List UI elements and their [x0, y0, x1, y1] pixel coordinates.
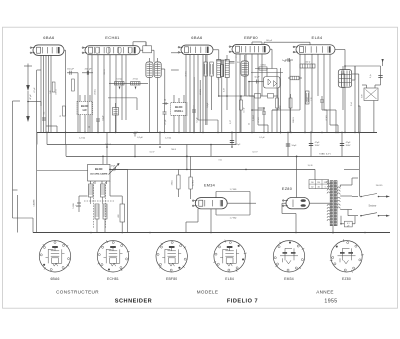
capacitor C bus — [134, 132, 136, 137]
svg-text:EZ80: EZ80 — [282, 187, 292, 191]
tube V5 pin wires — [299, 54, 301, 110]
wire v x78 — [77, 102, 79, 133]
resistor R3 — [72, 79, 75, 91]
svg-text:110: 110 — [311, 182, 314, 184]
svg-text:Secteur: Secteur — [369, 205, 377, 208]
bus junction dots — [46, 132, 48, 134]
antenna input terminal — [24, 65, 32, 67]
svg-text:0,1μF: 0,1μF — [103, 115, 105, 121]
wire jog6 — [258, 124, 268, 126]
wire jog t1b — [46, 125, 57, 127]
wire v x195 — [193, 77, 195, 132]
bus tick x65 — [65, 132, 67, 144]
resistor R agc1 — [115, 82, 125, 85]
tube V2 top wire — [132, 42, 134, 46]
svg-text:6BA6: 6BA6 — [50, 277, 59, 281]
svg-text:2n: 2n — [282, 60, 284, 62]
svg-text:1 MΩ: 1 MΩ — [260, 65, 266, 67]
svg-text:47 kΩ: 47 kΩ — [258, 117, 260, 123]
svg-text:0,27: 0,27 — [230, 120, 232, 124]
tuning coil L4 — [103, 204, 107, 219]
svg-text:FIDELIO 7: FIDELIO 7 — [227, 298, 258, 304]
bus ground y232.5 — [33, 232, 390, 234]
svg-text:25: 25 — [249, 123, 251, 125]
resistor R1 vertical — [52, 82, 55, 92]
coupling coil ECH81 — [143, 46, 152, 53]
svg-text:1,7 MΩ: 1,7 MΩ — [230, 218, 237, 220]
svg-text:1 k: 1 k — [339, 81, 341, 84]
svg-text:BLOC: BLOC — [81, 104, 88, 108]
svg-text:764 Ω: 764 Ω — [171, 149, 177, 151]
dots ebf — [240, 95, 242, 97]
svg-text:1,2 kΩ: 1,2 kΩ — [105, 144, 112, 146]
svg-text:ANNEE: ANNEE — [316, 290, 334, 295]
EM34 pin wires — [210, 209, 212, 233]
svg-text:STAB. 6,3 V: STAB. 6,3 V — [319, 153, 331, 156]
power transformer primary winding — [327, 183, 330, 185]
socket view EL84 — [214, 241, 245, 272]
svg-text:6BA6: 6BA6 — [43, 35, 55, 40]
svg-text:0,1μF: 0,1μF — [207, 102, 209, 108]
tube V3 6BA6 envelope — [181, 45, 213, 55]
socket view 6BA6 — [39, 241, 70, 272]
wire v x146 — [145, 42, 147, 46]
resistor R el84 grid — [290, 76, 299, 80]
svg-text:1 MΩ: 1 MΩ — [280, 105, 282, 110]
capacitor 150pF top — [67, 72, 78, 74]
capacitor C47uF-1 — [310, 132, 312, 156]
svg-text:350V: 350V — [346, 145, 351, 147]
svg-text:1,2 kΩ: 1,2 kΩ — [79, 138, 86, 140]
svg-text:1,2 kΩ: 1,2 kΩ — [165, 138, 172, 140]
svg-text:47 kΩ: 47 kΩ — [133, 78, 139, 80]
resistor R em1 — [177, 175, 180, 189]
wire osc jog — [108, 97, 137, 99]
resistor R ebf1 — [240, 100, 243, 110]
svg-text:ECH81: ECH81 — [105, 35, 120, 40]
tube V4 top wire — [251, 42, 253, 45]
resistor R t3a — [204, 62, 208, 76]
IF transformer T2 can B — [225, 60, 229, 78]
bloc HF wires — [79, 95, 81, 102]
capacitor C ebf — [262, 111, 266, 113]
svg-text:245: 245 — [324, 182, 327, 184]
svg-text:0,1μF: 0,1μF — [197, 117, 199, 123]
voltage table — [309, 180, 329, 189]
bus tick x107 — [106, 132, 108, 144]
tube V5 EL84 envelope — [296, 45, 335, 55]
wire jog3 — [272, 109, 300, 111]
IF transformer T2 core — [221, 60, 223, 77]
capacitor 0.1uF mains — [344, 221, 352, 227]
terminal antenna ext — [382, 59, 384, 66]
AGC line — [109, 82, 148, 84]
wire v x254 — [253, 96, 255, 132]
IF transformer T1 can A — [146, 62, 153, 77]
wire x33 bottom — [32, 218, 34, 233]
resistor R cadre — [120, 204, 125, 222]
bus tick x338 — [337, 132, 339, 134]
mains switch upper — [352, 196, 358, 198]
svg-text:H.F: H.F — [83, 108, 88, 112]
svg-text:100 pF: 100 pF — [266, 40, 273, 42]
IF transformer T1 can B — [154, 62, 161, 77]
bus tick x232 — [231, 132, 233, 134]
tube V2 internal grid boxes — [96, 47, 100, 53]
IF T1 wires — [148, 77, 150, 132]
capacitor C50uF b — [231, 132, 233, 147]
svg-text:EZ80: EZ80 — [342, 277, 351, 281]
svg-text:350V: 350V — [315, 145, 320, 147]
svg-text:0,1μ: 0,1μ — [370, 74, 372, 78]
wire v x327 — [326, 110, 328, 132]
ferrite core dashed — [93, 182, 95, 228]
wire jog1 — [245, 95, 247, 97]
capacitor C hp — [380, 70, 382, 85]
wire x12 down — [12, 190, 14, 218]
padder capacitor — [113, 108, 119, 116]
tube V2 ECH81 envelope — [85, 46, 140, 55]
wire jog4 — [324, 109, 336, 111]
socket view EBF80 — [156, 241, 187, 272]
svg-text:1 MΩ: 1 MΩ — [172, 180, 174, 185]
svg-text:100 Ω: 100 Ω — [305, 62, 311, 64]
svg-text:51 kΩ: 51 kΩ — [117, 78, 123, 80]
svg-text:5,6 kΩ: 5,6 kΩ — [307, 97, 309, 103]
svg-text:BLOC: BLOC — [175, 105, 182, 109]
svg-text:ACCORD-CADRE: ACCORD-CADRE — [90, 173, 108, 176]
svg-text:50μF: 50μF — [236, 144, 242, 146]
capacitor C ECH81 grid — [162, 103, 168, 105]
svg-text:6,3 V: 6,3 V — [150, 152, 155, 154]
svg-text:50 pF: 50 pF — [254, 77, 260, 79]
bloc oscill wires — [173, 95, 175, 103]
svg-text:EL84: EL84 — [225, 277, 234, 281]
svg-text:3,4 Ω: 3,4 Ω — [308, 165, 313, 167]
svg-text:250 pF: 250 pF — [85, 69, 92, 71]
wire jog t1 — [33, 101, 41, 103]
tube V3 left wire — [171, 69, 179, 71]
svg-text:CADRE: CADRE — [32, 199, 35, 207]
tube V6 EM34 envelope — [195, 198, 227, 209]
wire det — [221, 77, 223, 133]
svg-text:CONSTRUCTEUR: CONSTRUCTEUR — [56, 290, 99, 295]
IF transformer T3 can — [241, 61, 249, 76]
svg-text:EBF80: EBF80 — [244, 35, 258, 40]
bus B3 y156 — [66, 156, 359, 158]
HT rail right — [358, 132, 360, 196]
bus tick x280 — [280, 132, 282, 134]
wire left feeder — [36, 70, 38, 233]
resistor R agc2 — [131, 82, 141, 85]
tuning coil L3 — [95, 204, 99, 219]
svg-text:EBF80: EBF80 — [166, 277, 177, 281]
tube V3 pin wires — [185, 55, 187, 133]
bus B1 y132 — [37, 132, 377, 134]
capacitor C ech k — [96, 118, 100, 120]
wire jog2 — [219, 95, 227, 97]
resistor det1 — [220, 65, 223, 77]
svg-text:50: 50 — [89, 126, 91, 128]
resistor R2 vertical — [63, 106, 66, 116]
resistor R el84 cathode — [306, 91, 310, 104]
svg-text:47 pF: 47 pF — [165, 119, 167, 125]
IF T2 wires — [213, 49, 219, 51]
svg-text:6,3 V: 6,3 V — [252, 152, 258, 154]
IF T3 wires — [244, 55, 246, 61]
coil bottom wires — [96, 219, 98, 233]
output transformer T4 — [338, 70, 351, 88]
bus tick x37 — [36, 132, 38, 144]
mains switch lower — [348, 215, 358, 217]
bus B4 y169 — [110, 169, 315, 171]
wire v x200 — [199, 80, 201, 132]
tube V4 EBF80 envelope — [232, 44, 270, 54]
svg-text:47μF: 47μF — [346, 142, 352, 144]
resistor R el84 screen — [300, 64, 315, 68]
wire v x355 — [354, 66, 356, 132]
svg-text:0: 0 — [325, 187, 326, 189]
wire v x360 — [359, 106, 361, 132]
svg-text:OSCILL: OSCILL — [174, 110, 183, 113]
wire cadre lower — [17, 195, 19, 233]
ground bus dots — [90, 232, 92, 234]
capacitor C el — [320, 99, 324, 101]
svg-text:EM34: EM34 — [204, 184, 215, 188]
svg-text:5 kΩ: 5 kΩ — [351, 101, 353, 106]
wire jog7 — [330, 124, 338, 126]
IF transformer T2 can A — [217, 60, 221, 78]
bus tick x186 — [186, 145, 188, 170]
capacitor 47pF accord — [112, 168, 118, 170]
HT wire right — [351, 178, 353, 185]
resistor R right — [341, 74, 345, 88]
capacitor cadre — [78, 198, 80, 212]
capacitor C osc — [163, 111, 167, 113]
svg-text:1,7 MΩ: 1,7 MΩ — [230, 189, 237, 191]
bloc oscillateur box — [171, 103, 187, 116]
tube V7 EZ80 envelope — [286, 198, 309, 209]
wire v x186.9 — [186, 169, 188, 171]
wire jog8 — [252, 109, 264, 111]
svg-text:MODELE: MODELE — [197, 290, 219, 295]
power transformer core — [330, 181, 333, 226]
svg-text:0,1: 0,1 — [44, 112, 46, 115]
socket view EZ80 — [331, 241, 362, 272]
svg-text:3 Ω: 3 Ω — [218, 160, 222, 162]
bus tick x211 — [210, 145, 212, 157]
wire pot down — [272, 109, 278, 111]
antenna coil L1 — [90, 181, 92, 184]
svg-text:ECH81: ECH81 — [107, 277, 119, 281]
svg-text:300 Ω: 300 Ω — [104, 69, 106, 75]
tube V5 top wire — [264, 41, 310, 43]
EZ80 wires — [296, 169, 298, 197]
power transformer secondary winding — [337, 187, 340, 189]
resistor R ebf2 — [276, 98, 279, 108]
svg-text:BLOC: BLOC — [95, 167, 103, 171]
resistor R t3b — [210, 62, 214, 76]
dots accord — [106, 144, 108, 146]
svg-text:5 000: 5 000 — [73, 203, 75, 209]
resistor R em2 — [189, 177, 192, 189]
capacitor C t1 g — [42, 117, 46, 119]
svg-text:300 Ω: 300 Ω — [293, 117, 295, 123]
tube V1 6BA6 envelope — [33, 45, 64, 56]
svg-text:SCHNEIDER: SCHNEIDER — [115, 298, 152, 304]
svg-text:12 kΩ: 12 kΩ — [193, 180, 195, 186]
tube V1 pin wires — [40, 56, 42, 133]
bloc accord top wires — [37, 170, 88, 172]
svg-text:47 pF: 47 pF — [34, 87, 36, 93]
detector block — [264, 77, 281, 89]
wire left edge bus — [12, 101, 14, 190]
svg-text:6BA6: 6BA6 — [191, 35, 203, 40]
svg-text:10 nF: 10 nF — [244, 107, 246, 113]
wire det y72 — [251, 72, 283, 74]
bus B2 y144 — [47, 144, 236, 146]
wire jog5 — [198, 119, 218, 121]
capacitor C50uF — [287, 132, 289, 156]
svg-text:46 kΩ: 46 kΩ — [186, 71, 188, 77]
bus tick x296 — [296, 156, 298, 169]
bus tick x160 — [159, 132, 161, 144]
wire x12 jog — [13, 189, 18, 191]
capacitor 50pF det2 — [249, 81, 264, 83]
wire v x290 — [289, 60, 291, 132]
socket view EM34 — [273, 241, 304, 272]
trimmer arrow — [109, 164, 119, 175]
wire accord-B4 — [110, 168, 112, 170]
loudspeaker HP — [364, 88, 378, 101]
svg-text:H.P.: H.P. — [362, 94, 364, 98]
wire v x374 — [373, 101, 375, 133]
power transformer bottom wire — [332, 226, 334, 233]
svg-text:0,1 μF: 0,1 μF — [259, 137, 265, 139]
output transformer wires — [335, 49, 345, 51]
antenna coil L2 — [101, 181, 103, 184]
capacitor C47uF-2 — [341, 132, 343, 156]
svg-text:47μF: 47μF — [315, 142, 321, 144]
svg-text:130: 130 — [317, 182, 320, 184]
bloc accord-cadre box — [88, 164, 110, 181]
grid cap C el84 — [285, 59, 293, 61]
svg-text:50μF: 50μF — [292, 145, 298, 147]
svg-text:0,1μF: 0,1μF — [137, 137, 143, 139]
capacitor 250pF top — [82, 72, 93, 74]
svg-text:20 kΩ: 20 kΩ — [95, 89, 97, 95]
bus tick x135b — [134, 145, 136, 157]
switch contacts det — [255, 94, 261, 99]
EM34 right bracket — [227, 202, 250, 204]
socket view ECH81 — [97, 241, 128, 272]
capacitor C t3 — [192, 109, 196, 111]
wire v x359 — [358, 74, 360, 132]
tube V2 pin wires — [91, 55, 93, 133]
bloc HF box — [77, 102, 93, 115]
svg-text:110-245: 110-245 — [376, 185, 383, 187]
svg-text:EM34: EM34 — [284, 277, 294, 281]
svg-text:180 Ω: 180 Ω — [56, 89, 58, 95]
wire v x280 — [280, 68, 282, 132]
resistor R el1 — [289, 98, 292, 108]
wire v x345b — [344, 66, 346, 70]
svg-text:150 pF: 150 pF — [67, 69, 74, 71]
svg-text:EL84: EL84 — [312, 35, 323, 40]
tube V4 pin wires — [235, 54, 237, 132]
svg-text:5: 5 — [235, 57, 236, 59]
capacitor 50pF det — [230, 61, 235, 63]
wire jog ebf — [246, 95, 254, 97]
resistor 1M horizontal — [255, 68, 277, 70]
svg-text:47 pF: 47 pF — [30, 94, 32, 100]
svg-text:1955: 1955 — [324, 298, 337, 304]
